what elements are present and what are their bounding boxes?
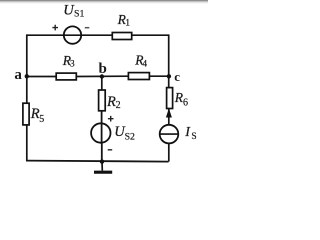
junction dot at ground <box>100 159 104 163</box>
wire left vertical (R5 to bottom corner) <box>26 125 28 162</box>
svg-text:4: 4 <box>142 60 147 70</box>
resistor R2 <box>99 90 106 111</box>
wire top (left segment to US1) <box>27 34 63 36</box>
US1 minus sign <box>85 27 90 29</box>
wire middle (a to R3) <box>27 76 56 78</box>
resistor R6 <box>167 88 173 109</box>
wire right vertical (R6 to IS circle) <box>168 108 170 125</box>
svg-text:6: 6 <box>183 97 188 108</box>
label R5 <box>30 106 45 125</box>
label R3 <box>62 53 75 70</box>
wire b branch (b to R2) <box>101 77 103 91</box>
svg-text:S2: S2 <box>125 131 135 142</box>
svg-text:1: 1 <box>125 19 130 29</box>
voltage source US2 <box>91 123 110 142</box>
label R6 <box>174 90 188 108</box>
US1 plus sign <box>52 25 58 31</box>
node c <box>167 69 181 84</box>
resistor R3 <box>56 73 76 80</box>
svg-text:a: a <box>14 67 22 83</box>
resistor R5 <box>23 103 29 125</box>
svg-text:2: 2 <box>116 100 121 111</box>
wire bottom <box>26 161 169 162</box>
node a <box>14 67 29 83</box>
node b <box>99 61 107 79</box>
svg-text:c: c <box>174 69 180 84</box>
wire b branch (R2 to US2 circle, through circle) <box>101 111 103 144</box>
svg-text:S1: S1 <box>74 8 84 19</box>
wire b branch (US2 circle to bottom wire) <box>101 144 103 162</box>
svg-text:R: R <box>30 106 40 122</box>
label R1 <box>117 12 131 29</box>
label IS <box>184 125 196 142</box>
ground <box>94 162 112 173</box>
svg-text:S: S <box>191 132 196 142</box>
label R2 <box>106 94 121 111</box>
wire through US1 circle <box>63 34 112 36</box>
wire right vertical (IS circle to bottom) <box>168 143 170 161</box>
current source IS <box>160 125 179 144</box>
wire middle (R4 to c) <box>149 75 168 77</box>
svg-text:R: R <box>106 94 116 110</box>
wire left vertical (top corner to R5) <box>26 34 28 103</box>
label US2 <box>114 124 135 143</box>
svg-text:b: b <box>99 61 107 77</box>
US2 minus sign <box>108 149 113 151</box>
voltage source US1 <box>64 26 81 43</box>
resistor R4 <box>128 73 149 80</box>
wire right vertical (top corner to c) <box>168 34 170 87</box>
wire top (R1 to top-right corner) <box>132 34 169 36</box>
IS arrow head <box>166 109 171 117</box>
svg-text:3: 3 <box>70 59 75 69</box>
resistor R1 <box>112 33 131 40</box>
label R4 <box>134 52 147 69</box>
US2 plus sign <box>108 116 114 122</box>
svg-text:5: 5 <box>39 114 44 125</box>
label US1 <box>63 3 84 20</box>
wire middle (R3 to R4) <box>76 75 128 77</box>
scan edge shading top <box>0 0 208 3</box>
